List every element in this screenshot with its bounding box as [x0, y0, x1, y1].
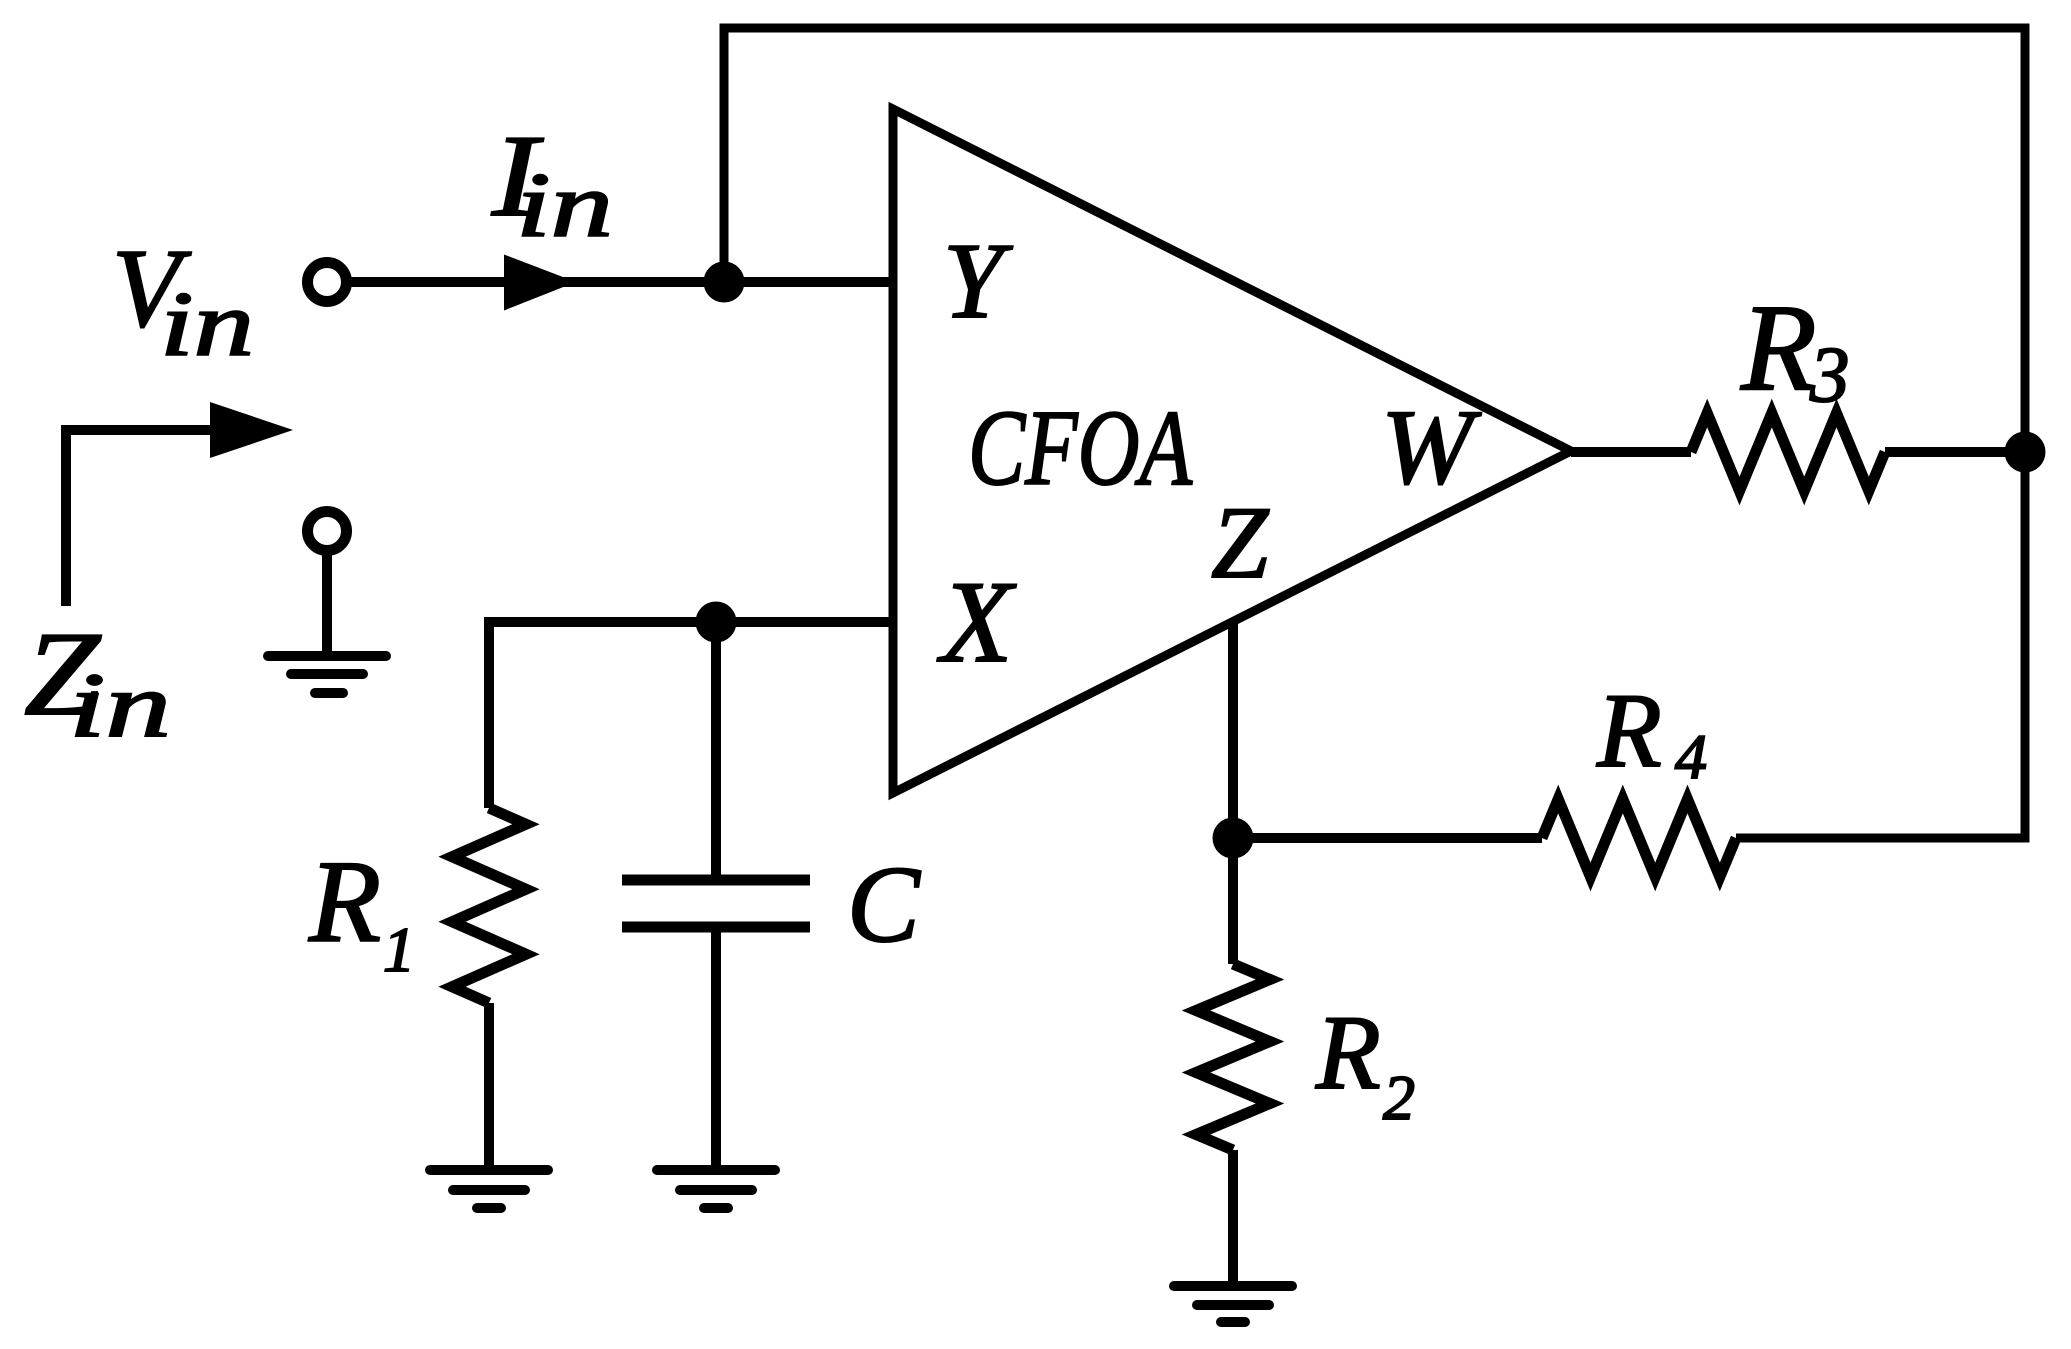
wire Z node down to R2	[1228, 838, 1238, 964]
wire terminal to ground	[322, 550, 332, 656]
terminal input ground	[308, 512, 347, 551]
ground R2	[1174, 1286, 1292, 1322]
resistor R4	[1542, 799, 1736, 877]
svg-text:R: R	[1315, 994, 1381, 1111]
wire R3 to right rail	[1885, 447, 2025, 457]
svg-text:X: X	[937, 558, 1017, 687]
capacitor C stem top	[711, 622, 721, 875]
ground C	[657, 1170, 775, 1208]
wire Vin to Y pin	[346, 277, 893, 287]
resistor R1	[452, 808, 526, 1003]
svg-text:3: 3	[1809, 332, 1850, 419]
svg-text:in: in	[160, 273, 254, 375]
wire R2 to ground	[1228, 1150, 1238, 1286]
capacitor C plates	[622, 875, 810, 886]
svg-text:W: W	[1381, 389, 1482, 507]
wire C to ground	[711, 932, 721, 1170]
op-amp U1 CFOA triangle	[893, 109, 1571, 793]
resistor R3	[1691, 413, 1885, 491]
svg-text:Z: Z	[1211, 486, 1270, 600]
svg-text:Y: Y	[943, 222, 1013, 341]
svg-text:R: R	[1596, 672, 1662, 789]
node junction X	[696, 602, 737, 643]
svg-text:R: R	[308, 836, 381, 967]
wire top feedback from Y node up and across to right rail	[724, 28, 2025, 282]
wire W apex to R3	[1571, 447, 1691, 457]
svg-text:CFOA: CFOA	[968, 389, 1193, 508]
svg-text:2: 2	[1383, 1062, 1415, 1133]
svg-text:in: in	[516, 154, 613, 256]
current arrow Iin	[504, 255, 576, 311]
svg-text:R: R	[1740, 279, 1817, 416]
arrow Zin	[66, 430, 215, 606]
svg-text:4: 4	[1675, 721, 1707, 792]
node junction Y	[704, 262, 745, 303]
resistor R2	[1196, 964, 1270, 1150]
wire Z node to R4	[1233, 833, 1542, 843]
terminal Vin	[308, 263, 347, 302]
svg-text:in: in	[69, 654, 171, 756]
svg-text:C: C	[847, 844, 921, 965]
node junction R3 output	[2005, 432, 2046, 473]
ground R1	[430, 1170, 548, 1208]
wire X pin to R1 corner	[489, 622, 893, 808]
wire Z pin down	[1228, 624, 1238, 838]
wire right rail down to R3 output node and on to R4 right end	[1736, 24, 2025, 839]
svg-text:1: 1	[383, 914, 415, 985]
ground input	[268, 656, 386, 693]
wire R1 to ground	[484, 1003, 494, 1170]
node junction Z	[1213, 818, 1254, 859]
